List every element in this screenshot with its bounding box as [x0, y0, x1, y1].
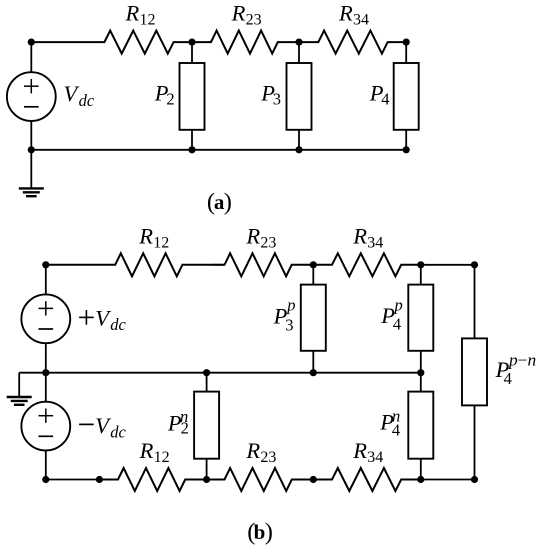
wire P3p top [312, 265, 314, 285]
wire bottom rail (a) [31, 149, 406, 151]
svg-text:R: R [352, 223, 367, 248]
wire P4n bottom [420, 459, 422, 480]
load P4pn [462, 338, 487, 405]
node (a) bottom [295, 146, 302, 153]
wire bottom rail right (b) [421, 479, 475, 481]
wire ground stub (b) [19, 372, 46, 374]
resistor R12 (b top) [46, 253, 213, 276]
node (a) bottom [28, 146, 35, 153]
svg-text:V: V [64, 81, 80, 106]
wire +Vdc bottom [45, 343, 47, 373]
node (b) bottom rail [96, 476, 103, 483]
node (b) top rail [42, 261, 49, 268]
resistor R12 (b bottom) [99, 468, 206, 491]
wire -Vdc top [45, 373, 47, 402]
load P3p [301, 285, 326, 351]
ground (a) [19, 150, 44, 196]
wire P3 bottom [298, 130, 300, 150]
node (a) top [28, 39, 35, 46]
svg-text:34: 34 [353, 11, 369, 28]
node (b) middle rail [42, 369, 49, 376]
svg-text:n: n [180, 407, 188, 426]
wire P2 top [191, 42, 193, 63]
wire -Vdc bottom [45, 451, 47, 480]
wire P2 bottom [191, 130, 193, 150]
node (a) bottom [188, 146, 195, 153]
wire P4pn bottom [474, 405, 476, 479]
resistor R23 (a) [192, 31, 299, 54]
wire P3 top [298, 42, 300, 63]
svg-text:23: 23 [260, 234, 276, 251]
svg-text:n: n [392, 406, 400, 425]
svg-text:12: 12 [153, 234, 169, 251]
label +Vdc [79, 310, 94, 325]
resistor R23 (b top) [213, 253, 313, 276]
svg-text:R: R [139, 438, 154, 463]
wire top rail joint (b) [213, 264, 224, 266]
wire P4n top [420, 373, 422, 392]
label -Vdc [79, 423, 94, 425]
svg-text:R: R [245, 223, 260, 248]
svg-text:12: 12 [140, 11, 156, 28]
load P4n [408, 392, 433, 459]
wire P4 top [405, 42, 407, 63]
svg-text:dc: dc [110, 423, 126, 442]
svg-text:V: V [95, 413, 111, 438]
svg-text:4: 4 [504, 369, 512, 388]
node (a) top [295, 39, 302, 46]
svg-text:p−n: p−n [508, 351, 536, 370]
svg-text:V: V [95, 305, 111, 330]
voltage source Vdc [7, 72, 56, 121]
node (a) top [188, 39, 195, 46]
svg-text:p: p [394, 295, 403, 314]
svg-text:23: 23 [260, 449, 276, 466]
svg-text:R: R [352, 438, 367, 463]
svg-text:R: R [125, 0, 140, 25]
resistor R12 (a) [31, 31, 192, 54]
svg-text:dc: dc [110, 315, 126, 334]
wire P4 bottom [405, 130, 407, 150]
svg-text:): ) [224, 188, 232, 215]
load P2 [180, 63, 205, 130]
svg-text:p: p [286, 296, 295, 315]
svg-text:4: 4 [381, 90, 389, 109]
node (b) bottom rail [471, 476, 478, 483]
wire middle rail (b) [46, 372, 421, 374]
wire bottom rail left (b) [46, 479, 100, 481]
node (b) top rail [471, 261, 478, 268]
load P2n [194, 392, 219, 459]
svg-text:12: 12 [154, 449, 170, 466]
wire source bottom (a) [30, 121, 32, 150]
node (a) top [403, 39, 410, 46]
resistor R23 (b bottom) [207, 468, 314, 491]
svg-text:34: 34 [367, 449, 383, 466]
voltage source +Vdc [21, 294, 70, 343]
node (b) middle rail [310, 369, 317, 376]
ground (b) [7, 373, 32, 405]
wire top rail right (b) [421, 264, 475, 266]
svg-text:R: R [138, 223, 153, 248]
wire P4p bottom [420, 351, 422, 373]
load P4p [408, 285, 433, 351]
node (a) bottom [403, 146, 410, 153]
load P4 [394, 63, 419, 130]
resistor R34 (b top) [313, 253, 421, 276]
svg-text:b: b [254, 520, 266, 544]
svg-text:23: 23 [246, 11, 262, 28]
svg-text:2: 2 [166, 90, 174, 109]
node (b) top rail [310, 261, 317, 268]
wire P4pn top [474, 265, 476, 339]
wire P3p bottom [312, 351, 314, 373]
svg-text:dc: dc [79, 91, 95, 110]
node (b) bottom rail [310, 476, 317, 483]
svg-text:): ) [265, 518, 273, 545]
wire +Vdc top [45, 265, 47, 294]
svg-text:R: R [338, 0, 353, 25]
svg-text:3: 3 [273, 90, 281, 109]
wire P2n top [206, 373, 208, 392]
load P3 [287, 63, 312, 130]
resistor R34 (a) [299, 31, 406, 54]
node (b) bottom rail [42, 476, 49, 483]
wire P2n bottom [206, 459, 208, 480]
resistor R34 (b bottom) [313, 468, 421, 491]
svg-text:4: 4 [393, 315, 401, 334]
wire P4p top [420, 265, 422, 285]
node (b) bottom rail [203, 476, 210, 483]
svg-text:34: 34 [367, 234, 383, 251]
svg-text:3: 3 [285, 316, 293, 335]
node (b) bottom rail [417, 476, 424, 483]
node (b) middle rail [417, 369, 424, 376]
wire source top (a) [30, 42, 32, 72]
svg-text:R: R [245, 438, 260, 463]
node (b) middle rail [203, 369, 210, 376]
node (b) top rail [417, 261, 424, 268]
voltage source -Vdc [21, 402, 70, 451]
svg-text:R: R [231, 0, 246, 25]
